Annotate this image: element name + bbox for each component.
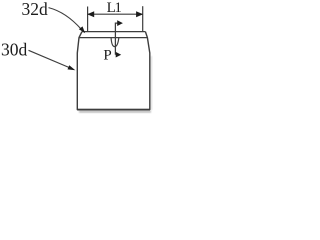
dimension arrowhead right (136, 11, 143, 17)
lid rim top line 32d (82, 31, 145, 33)
svg-text:32d: 32d (22, 0, 49, 19)
extension line right (142, 6, 144, 31)
dimension line L1 (88, 13, 142, 15)
arrowhead 32d (79, 26, 85, 33)
arrowhead 30d (68, 65, 76, 70)
P vertical line with top elbow (115, 23, 118, 55)
extension line left (87, 7, 89, 32)
bottom shadow (79, 111, 151, 113)
case body outline 30d (77, 32, 150, 110)
dimension arrowhead left (87, 11, 94, 17)
P top arrowhead (117, 20, 123, 26)
svg-text:30d: 30d (1, 40, 28, 60)
U-shaped vent curve (111, 38, 119, 47)
bottom edge thick line (77, 109, 150, 111)
right edge shadow (151, 56, 152, 110)
lid rim bottom line (79, 37, 147, 39)
svg-text:L1: L1 (107, 0, 122, 16)
svg-text:P: P (103, 48, 111, 64)
P bottom arrowhead (116, 52, 122, 58)
leader line 32d (49, 8, 82, 30)
leader line 30d (29, 50, 69, 67)
